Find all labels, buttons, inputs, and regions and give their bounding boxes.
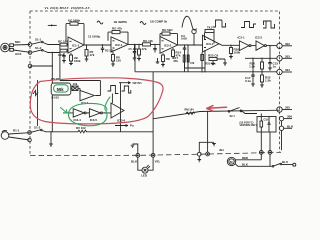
label 305	[285, 106, 290, 110]
pot box outline	[51, 83, 71, 95]
sine wave glyph	[97, 21, 103, 24]
wire contact C up to ground tap	[199, 142, 216, 152]
feedback capacitor C8	[205, 30, 215, 44]
junction dots	[134, 44, 156, 45]
label 1B COMP 5k	[150, 20, 168, 24]
svg-text:100k: 100k	[74, 59, 81, 63]
junction dots	[52, 44, 61, 67]
svg-text:150: 150	[116, 58, 121, 62]
svg-text:5W 3V1: 5W 3V1	[133, 81, 143, 85]
label 306	[287, 115, 292, 119]
LED circuit	[138, 157, 153, 173]
label S2-1	[230, 115, 236, 118]
svg-text:47k: 47k	[90, 53, 95, 57]
svg-text:BLU: BLU	[282, 160, 288, 164]
bus contact C with ground	[197, 152, 201, 162]
bus contact D	[206, 111, 210, 156]
green box around 50k pot	[54, 85, 69, 92]
svg-text:BLK: BLK	[131, 160, 138, 164]
bus contact E	[259, 132, 263, 154]
switch S2-1	[228, 108, 242, 113]
svg-text:Tk1: Tk1	[207, 26, 212, 30]
label 303	[285, 54, 290, 58]
test point circle	[192, 29, 196, 45]
FC version box	[257, 114, 276, 133]
mid square glyph 2	[122, 86, 131, 93]
wire switch outputs to input network	[30, 43, 60, 67]
resistor R14 47k	[172, 48, 175, 59]
inverter IC3-1	[239, 41, 251, 51]
label C8	[207, 26, 212, 30]
svg-text:S1-2: S1-2	[35, 46, 42, 50]
label MIC	[15, 40, 21, 56]
capacitor C3 0.68	[183, 45, 186, 52]
op-amp IC2-2	[160, 37, 178, 54]
svg-text:LED: LED	[141, 174, 148, 178]
label IC3-1	[238, 35, 245, 39]
label S1-1	[35, 38, 42, 42]
label RG 1.2k	[105, 49, 115, 52]
motor wires	[235, 154, 272, 166]
resistor 150 below IC2-2 with ground	[161, 53, 165, 67]
svg-text:VL 23(4)-B5A7. 23(2)PA-A7.: VL 23(4)-B5A7. 23(2)PA-A7.	[45, 6, 91, 10]
svg-text:IC1-1: IC1-1	[72, 44, 80, 48]
svg-text:RV 102: RV 102	[76, 126, 86, 130]
svg-text:305: 305	[285, 106, 290, 110]
capacitor C5 to ground	[133, 44, 137, 60]
inverter IC3-5	[89, 109, 102, 117]
junction dots	[252, 58, 270, 59]
label 150	[116, 56, 121, 63]
labels C5 47k	[129, 47, 147, 51]
junction dot	[50, 131, 51, 132]
label IC3-3	[81, 101, 89, 105]
svg-text:1.5k: 1.5k	[265, 78, 271, 82]
switch S3	[272, 163, 296, 167]
svg-text:47k: 47k	[190, 61, 195, 65]
connector 303	[277, 56, 292, 61]
label C19	[264, 119, 269, 122]
long wire to connector 305	[153, 110, 280, 119]
dashed enclosure border	[30, 11, 280, 156]
sine wave glyph large	[182, 16, 197, 30]
svg-text:302: 302	[285, 42, 290, 46]
inverter IC3-3	[80, 90, 94, 100]
label RG 47k	[112, 27, 122, 31]
svg-text:RG 5B4: RG 5B4	[162, 28, 173, 32]
wire inverter out to connector 302	[266, 45, 276, 47]
svg-text:1u: 1u	[273, 64, 277, 68]
svg-text:S2-1: S2-1	[230, 115, 236, 118]
small arrow glyph top left inside border	[48, 24, 57, 26]
wire bus to connector 303	[245, 57, 277, 59]
svg-text:0.1u: 0.1u	[245, 79, 251, 83]
resistor RC106	[60, 49, 69, 52]
resistor box R40	[72, 86, 78, 91]
resistor RV102 zigzag	[78, 130, 87, 133]
labels RED BLK	[242, 156, 249, 167]
resistor network right of IC3-1	[209, 58, 227, 66]
resistor R28 100k to ground	[229, 45, 233, 59]
svg-text:KG 5B4k: KG 5B4k	[68, 18, 80, 22]
title text	[45, 6, 91, 10]
svg-text:303: 303	[285, 54, 290, 58]
green lasso around IC3-4 IC3-5	[69, 97, 111, 126]
inverter IC3-2	[256, 41, 266, 50]
op-amp IC1-1	[68, 37, 84, 53]
label R17 47k	[172, 56, 178, 63]
svg-text:BLK: BLK	[287, 124, 294, 128]
label 5W 3V1	[133, 81, 143, 85]
label IC3-5	[90, 118, 98, 122]
svg-text:S1-1: S1-1	[35, 38, 42, 42]
vertical x153	[152, 72, 154, 154]
switch S1-3	[31, 129, 42, 132]
svg-text:IC3-5: IC3-5	[90, 118, 98, 122]
label 10k	[73, 82, 78, 86]
label 50k (teal)	[57, 87, 65, 92]
label RG 12k	[143, 39, 153, 43]
resistor RC104	[60, 43, 69, 46]
ground bus left components: resistors R17 R18	[156, 55, 205, 68]
label IC2-2	[164, 44, 172, 48]
resistor 47k to ground	[137, 44, 141, 61]
wires inverter chain	[63, 112, 111, 114]
left vertical wire	[37, 80, 39, 126]
svg-text:R1-1: R1-1	[13, 129, 20, 133]
label R32	[265, 76, 271, 83]
label IC1-1	[72, 44, 80, 48]
capacitor C6 below junction	[153, 44, 156, 52]
wire	[251, 45, 256, 47]
op-amp IC2-1	[111, 37, 128, 52]
label BLU	[282, 160, 288, 164]
svg-text:10k: 10k	[73, 82, 78, 86]
svg-text:Pu: Pu	[130, 124, 134, 128]
label IC3-1	[206, 42, 214, 46]
svg-text:JB1: JB1	[219, 148, 224, 152]
svg-text:IC2-2: IC2-2	[164, 44, 172, 48]
switch S1-2	[32, 49, 43, 52]
capacitor C2 with ground	[62, 53, 66, 63]
label BLK	[287, 124, 294, 128]
svg-text:0.68: 0.68	[181, 37, 187, 41]
node contacts bottom left	[28, 131, 32, 142]
resistor 150 below IC2-1 with ground	[111, 52, 115, 66]
resistor R32 to ground	[260, 72, 264, 88]
junction dot	[230, 45, 231, 46]
label R21 4.7k	[206, 62, 217, 66]
wire verticals down to supply bus	[185, 45, 206, 72]
off-page arrow PU	[115, 125, 128, 127]
components in FC box	[260, 121, 271, 132]
label FC box	[240, 122, 258, 127]
node contacts on left dashed line	[28, 43, 32, 68]
green arrow	[61, 108, 68, 114]
svg-text:MIC: MIC	[15, 40, 21, 44]
svg-text:IC3-4: IC3-4	[74, 118, 82, 122]
wire S2 to FC box	[242, 111, 257, 114]
junction dot on long wire	[207, 111, 208, 112]
svg-text:1B COMP 5k: 1B COMP 5k	[150, 20, 168, 24]
wire vertical feed to volume pot	[52, 45, 60, 132]
svg-text:M: M	[230, 160, 233, 164]
label R30 1.5k	[249, 62, 255, 69]
svg-text:IC3-1: IC3-1	[206, 42, 214, 46]
label WV WV	[51, 77, 60, 81]
junction dots	[87, 112, 105, 113]
label 47k	[190, 61, 195, 65]
op-amp IC3-1	[203, 35, 220, 52]
label R28 100k	[234, 48, 241, 55]
label S1-3	[34, 126, 41, 130]
label JB1	[219, 148, 224, 152]
svg-text:12 1000p: 12 1000p	[88, 35, 100, 39]
label 150b	[166, 57, 171, 61]
svg-text:RM 184: RM 184	[185, 108, 195, 112]
wire vertical x135	[134, 44, 136, 71]
svg-text:B1-B1: B1-B1	[52, 95, 60, 99]
label R22 C9	[208, 54, 219, 58]
resistor R30 1.5k to ground	[261, 58, 264, 72]
svg-text:47k: 47k	[142, 47, 147, 51]
label S1-2	[35, 46, 42, 50]
connector J2 (bottom left jack)	[1, 130, 29, 140]
supply bus wire	[135, 71, 277, 73]
label 12 1000p	[88, 35, 100, 39]
connector 306	[279, 116, 292, 120]
svg-text:BLK: BLK	[242, 162, 249, 166]
ground tap above contact A	[131, 144, 138, 154]
svg-text:VERSION ONLY: VERSION ONLY	[240, 125, 258, 127]
label IC3-6	[117, 118, 126, 122]
connector J1 (mic jack, top-left)	[1, 43, 30, 52]
svg-text:YEL: YEL	[155, 160, 161, 164]
label LED	[131, 160, 161, 178]
inverter IC3-4	[73, 109, 86, 117]
label PU	[130, 124, 134, 128]
svg-text:(1B FOR FC): (1B FOR FC)	[240, 122, 254, 124]
svg-text:C19: C19	[264, 119, 269, 122]
svg-text:306: 306	[287, 115, 292, 119]
wire drop with ground	[49, 132, 53, 147]
square wave glyph mid	[213, 20, 226, 27]
volume pot 50k wiring	[60, 81, 101, 96]
label RM 184	[185, 108, 195, 112]
resistor R5 47k to ground	[85, 45, 89, 61]
label RG 5B4	[162, 28, 173, 32]
resistor R21 below IC3-1	[201, 55, 204, 61]
label IC2-1	[115, 43, 123, 47]
square wave glyph 1	[241, 22, 256, 28]
pulse glyph left	[33, 91, 38, 96]
svg-text:IC2-1: IC2-1	[115, 43, 123, 47]
red arrow annotation	[207, 106, 227, 111]
wire IC2-2 out to IC3-1 opamp	[178, 44, 203, 46]
label 2B 100k	[74, 56, 81, 63]
label IC3-4	[74, 118, 82, 122]
svg-text:150: 150	[166, 57, 171, 61]
resistor RG12k series	[143, 43, 151, 46]
bus contact A	[136, 154, 140, 158]
feedback resistor RG5B4	[160, 32, 178, 45]
wire	[269, 46, 271, 59]
wire IC2-1 out to IC3 stage	[128, 43, 160, 45]
bus contact F	[268, 132, 272, 166]
junction dot	[86, 44, 103, 46]
svg-text:AUX: AUX	[15, 52, 21, 56]
junction dots	[184, 44, 195, 45]
wire IC1-1 output to IC2-1	[84, 44, 111, 46]
svg-text:RC 104: RC 104	[58, 39, 68, 43]
red annotation loop	[30, 78, 163, 124]
svg-text:304: 304	[285, 68, 290, 72]
capacitor C17 to ground	[251, 58, 255, 86]
junction dot	[269, 45, 270, 46]
switch S1-1	[32, 41, 43, 44]
svg-text:RED: RED	[242, 156, 248, 160]
connector 305	[277, 107, 292, 112]
svg-text:50k: 50k	[57, 87, 65, 92]
label R14 47k	[176, 51, 182, 58]
motor M	[227, 157, 235, 165]
label RV 102	[76, 126, 86, 130]
feedback resistor RG584k	[66, 22, 84, 45]
wire IC3-1 out to inverters	[219, 44, 239, 46]
label 304	[285, 68, 290, 72]
label 302	[285, 42, 290, 46]
svg-text:IC3-1: IC3-1	[238, 35, 245, 39]
junction dots on bus	[201, 71, 262, 72]
connector 302	[277, 43, 292, 48]
svg-text:IC3-2: IC3-2	[255, 35, 262, 39]
dashed bottom bus	[30, 152, 281, 155]
svg-text:1B 3BPFk: 1B 3BPFk	[114, 20, 128, 24]
label RC104	[58, 39, 68, 43]
label 1B 3BPFk	[114, 20, 128, 24]
svg-text:RG 47k: RG 47k	[112, 27, 122, 31]
label C3 0.68	[181, 34, 187, 41]
label M	[230, 160, 233, 164]
svg-text:1.5k: 1.5k	[249, 64, 255, 68]
sine glyph 2	[140, 22, 146, 25]
feedback resistor RG47k	[108, 31, 128, 45]
capacitor C4 stub	[101, 45, 104, 53]
svg-text:C5 .008: C5 .008	[129, 48, 138, 51]
bus contact B	[151, 153, 155, 157]
connector 304	[277, 69, 292, 74]
label C15 1u	[273, 62, 279, 69]
label IC3-2	[255, 35, 262, 39]
mid square glyph 1	[108, 86, 119, 98]
wire verticals from glyphs	[112, 83, 120, 132]
svg-text:R22 C9: R22 C9	[208, 54, 219, 58]
connector BLK	[279, 126, 292, 130]
svg-text:47k: 47k	[173, 59, 178, 63]
capacitor C15 1u	[268, 58, 272, 70]
label 100k	[58, 53, 65, 57]
resistor RM184 zigzag	[186, 112, 195, 114]
resistor R2 100k with ground	[69, 53, 73, 65]
off-page arrow 5V	[119, 82, 131, 84]
wire 306 drop	[281, 121, 283, 150]
svg-text:S1-3: S1-3	[34, 126, 41, 130]
svg-text:RG 12k: RG 12k	[143, 39, 153, 43]
label KG 584k	[68, 18, 80, 22]
inverter IC3-6	[111, 103, 124, 118]
label under pot	[52, 95, 60, 99]
label jack	[13, 129, 20, 133]
square wave glyph 2	[263, 21, 275, 28]
wire bottom row	[42, 131, 153, 132]
label C17 0.1	[245, 76, 251, 83]
label 47k	[90, 50, 95, 57]
